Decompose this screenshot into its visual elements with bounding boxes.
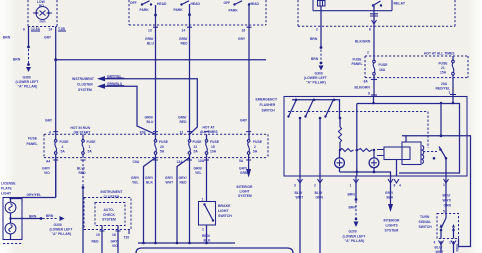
pin 16 + wire GRY bbox=[238, 25, 249, 134]
svg-text:GRN/: GRN/ bbox=[178, 116, 186, 120]
wire RED bbox=[92, 236, 103, 253]
flasher switch contact 1 bbox=[287, 101, 301, 177]
svg-text:BRN: BRN bbox=[348, 193, 356, 197]
gauge/sensor box (top left, dashed) bbox=[28, 0, 57, 27]
svg-text:5A: 5A bbox=[160, 150, 165, 154]
svg-text:"A" PILLAR): "A" PILLAR) bbox=[345, 239, 365, 243]
svg-text:PLATE: PLATE bbox=[1, 187, 12, 191]
svg-text:CLUSTER: CLUSTER bbox=[77, 83, 93, 87]
svg-text:BLU/: BLU/ bbox=[443, 194, 451, 198]
svg-text:C9A: C9A bbox=[133, 160, 140, 164]
turn signal contacts bbox=[440, 212, 456, 239]
svg-text:INTERIOR: INTERIOR bbox=[384, 219, 401, 223]
inner wire from pin 8 bbox=[356, 97, 460, 177]
svg-text:G200: G200 bbox=[349, 230, 357, 234]
wires GRY/YEL + GRY/BLK under fuse 20 bbox=[131, 158, 156, 243]
svg-text:16A: 16A bbox=[379, 68, 386, 72]
pin 14 + wire GRN/RED bbox=[179, 25, 190, 134]
svg-text:HOT IN RUN: HOT IN RUN bbox=[71, 126, 91, 130]
svg-text:BRN: BRN bbox=[310, 37, 318, 41]
svg-text:1: 1 bbox=[443, 183, 445, 187]
svg-text:1: 1 bbox=[449, 91, 451, 95]
pin 24 bbox=[49, 27, 67, 32]
svg-text:15A: 15A bbox=[440, 71, 447, 75]
wire GRY down to fuse 4 bbox=[45, 60, 56, 135]
svg-text:12.5A: 12.5A bbox=[31, 27, 41, 31]
wire BRN to G300 right bbox=[310, 11, 322, 65]
wires GRY/WHT + GRY/RED under fuse 22 bbox=[165, 158, 190, 243]
fuse S1 15A hot at all times bbox=[424, 52, 455, 78]
svg-text:YEL: YEL bbox=[195, 171, 202, 175]
svg-text:"A" PILLAR): "A" PILLAR) bbox=[52, 232, 72, 236]
svg-text:GRN: GRN bbox=[444, 204, 452, 208]
flasher pin 2 wire BLU/GRN bbox=[314, 176, 324, 253]
svg-text:4: 4 bbox=[434, 241, 436, 245]
svg-text:10A: 10A bbox=[198, 159, 205, 163]
svg-text:BLU/: BLU/ bbox=[435, 246, 443, 250]
svg-text:FUSE: FUSE bbox=[379, 63, 389, 67]
wire GRY/GRN to interior lights bbox=[237, 158, 254, 199]
relay outer dashed box bbox=[298, 0, 455, 26]
svg-text:5: 5 bbox=[443, 210, 445, 214]
svg-text:(LOWER LEFT: (LOWER LEFT bbox=[16, 80, 39, 84]
headlight switch contact 3 bbox=[224, 1, 260, 25]
svg-text:WHT: WHT bbox=[296, 196, 304, 200]
svg-text:GRY/YEL: GRY/YEL bbox=[27, 193, 42, 197]
headlight switch contact 2 bbox=[174, 1, 201, 25]
svg-text:2: 2 bbox=[316, 28, 318, 32]
svg-text:BLU: BLU bbox=[147, 120, 154, 124]
relay coil bbox=[318, 1, 326, 11]
indicator bulb 2 bbox=[369, 150, 379, 172]
svg-text:LIGHT: LIGHT bbox=[240, 190, 250, 194]
svg-text:GRY/: GRY/ bbox=[385, 191, 393, 195]
svg-text:22: 22 bbox=[194, 145, 198, 149]
svg-text:FUSE: FUSE bbox=[439, 62, 449, 66]
wire GRY from pin 24 bbox=[44, 27, 57, 62]
svg-text:BRN: BRN bbox=[13, 58, 21, 62]
svg-text:RED: RED bbox=[180, 120, 188, 124]
resistor row bbox=[339, 149, 375, 152]
wire BRN to G200 left bbox=[9, 214, 57, 221]
pin ticks at switch box and fuse band bbox=[53, 27, 251, 160]
fuse 4 bbox=[54, 134, 69, 157]
relay contact bbox=[372, 1, 382, 11]
svg-text:(LOWER LEFT: (LOWER LEFT bbox=[343, 235, 366, 239]
svg-text:GRY/: GRY/ bbox=[165, 176, 173, 180]
svg-text:CLUSTER: CLUSTER bbox=[104, 195, 120, 199]
svg-text:RED: RED bbox=[92, 240, 100, 244]
svg-text:GRY/: GRY/ bbox=[239, 167, 247, 171]
svg-text:LIGHT: LIGHT bbox=[1, 192, 11, 196]
svg-text:24: 24 bbox=[49, 28, 53, 32]
fuse 15 hot at all times bbox=[200, 126, 220, 158]
svg-text:21: 21 bbox=[441, 66, 445, 70]
svg-text:20A: 20A bbox=[441, 82, 448, 86]
svg-text:BLU/: BLU/ bbox=[295, 191, 303, 195]
svg-text:1: 1 bbox=[350, 184, 352, 188]
svg-text:5A: 5A bbox=[253, 150, 258, 154]
svg-text:GRN: GRN bbox=[240, 171, 248, 175]
license bulb 2 bbox=[5, 223, 16, 239]
ground G300 right bbox=[304, 66, 327, 85]
svg-text:2: 2 bbox=[314, 184, 316, 188]
svg-text:BRN: BRN bbox=[46, 214, 54, 218]
svg-text:13: 13 bbox=[148, 29, 152, 33]
ground G200 right bbox=[343, 222, 366, 244]
svg-text:16: 16 bbox=[112, 233, 116, 237]
svg-text:GRN: GRN bbox=[316, 196, 324, 200]
svg-text:2: 2 bbox=[254, 145, 256, 149]
svg-text:GRN/: GRN/ bbox=[145, 37, 153, 41]
fuse panel box right (dashed) bbox=[352, 56, 469, 78]
svg-text:INTERIOR: INTERIOR bbox=[237, 185, 254, 189]
svg-text:FUSE: FUSE bbox=[193, 140, 203, 144]
svg-text:FUSE: FUSE bbox=[28, 137, 38, 141]
svg-text:15: 15 bbox=[96, 233, 100, 237]
svg-text:1: 1 bbox=[449, 241, 451, 245]
wire GRY/VIO bbox=[111, 236, 119, 253]
svg-text:BRN: BRN bbox=[3, 36, 11, 40]
pin 6 bbox=[23, 27, 41, 32]
svg-text:10A: 10A bbox=[210, 150, 217, 154]
svg-text:G300: G300 bbox=[23, 76, 31, 80]
svg-text:GRY: GRY bbox=[44, 36, 52, 40]
wire BLU/RED under fuse 1 bbox=[77, 160, 86, 253]
bulb common wire bbox=[340, 171, 391, 176]
photo sensor symbol bbox=[33, 7, 52, 24]
fuse 1 bbox=[82, 134, 96, 157]
svg-text:FUSE: FUSE bbox=[253, 140, 263, 144]
svg-text:22: 22 bbox=[180, 131, 184, 135]
svg-text:16: 16 bbox=[242, 29, 246, 33]
svg-text:EMERGENCY: EMERGENCY bbox=[256, 98, 278, 102]
svg-text:OFF: OFF bbox=[130, 1, 137, 5]
svg-text:SWITCH: SWITCH bbox=[218, 214, 232, 218]
svg-text:YEL: YEL bbox=[132, 181, 139, 185]
svg-text:3: 3 bbox=[294, 184, 296, 188]
svg-text:6: 6 bbox=[369, 28, 371, 32]
svg-text:GRN: GRN bbox=[455, 244, 459, 252]
linkage (dashed) bbox=[288, 112, 428, 149]
svg-text:FLASHER: FLASHER bbox=[260, 103, 276, 107]
svg-text:FUSE: FUSE bbox=[210, 140, 220, 144]
bottom harness bus bbox=[138, 242, 235, 245]
resistor vertical bbox=[338, 118, 341, 150]
svg-text:GRY/: GRY/ bbox=[179, 176, 187, 180]
wire BLK/GRN to flasher bbox=[355, 78, 378, 97]
svg-text:VIO: VIO bbox=[44, 171, 50, 175]
relay pin stub bbox=[396, 160, 398, 177]
svg-text:FUSE: FUSE bbox=[353, 58, 363, 62]
ground G300 left bbox=[16, 67, 39, 89]
svg-text:BLU: BLU bbox=[147, 42, 154, 46]
license plate light label bbox=[1, 182, 16, 196]
svg-text:INSTRUMENT: INSTRUMENT bbox=[101, 190, 123, 194]
svg-text:BLK/GRN: BLK/GRN bbox=[355, 40, 371, 44]
svg-text:4: 4 bbox=[399, 184, 401, 188]
svg-text:BRAKE: BRAKE bbox=[218, 204, 231, 208]
flasher pin 3 wire BLU/WHT bbox=[294, 176, 303, 253]
svg-text:SWITCH: SWITCH bbox=[262, 109, 276, 113]
svg-text:WHT/: WHT/ bbox=[443, 199, 452, 203]
svg-text:5A: 5A bbox=[88, 150, 93, 154]
svg-text:WHT: WHT bbox=[166, 181, 174, 185]
headlight switch contact 1 bbox=[130, 1, 167, 25]
instrument cluster arrows (left) bbox=[72, 77, 94, 92]
svg-text:RED: RED bbox=[79, 171, 87, 175]
svg-text:8: 8 bbox=[368, 92, 370, 96]
svg-text:HEAD: HEAD bbox=[250, 2, 260, 6]
wire GRY/YEL from fuse 4 to license bbox=[9, 158, 55, 202]
brake light switch bbox=[199, 198, 233, 226]
indicator bulb 1 bbox=[335, 150, 345, 172]
svg-text:6: 6 bbox=[394, 184, 396, 188]
svg-text:GRY/: GRY/ bbox=[42, 167, 50, 171]
svg-text:GRY/: GRY/ bbox=[131, 176, 139, 180]
flasher pin 6 wire GRY/BLK to interior lights bbox=[384, 176, 401, 233]
arrow wire GRN/BLU bbox=[97, 82, 156, 134]
fuse 22 bbox=[180, 131, 203, 158]
svg-text:14: 14 bbox=[182, 29, 186, 33]
svg-text:HOT AT: HOT AT bbox=[203, 126, 215, 130]
svg-text:GRY/: GRY/ bbox=[145, 176, 153, 180]
svg-text:BLK/GRN: BLK/GRN bbox=[355, 86, 371, 90]
svg-text:GRN/: GRN/ bbox=[179, 37, 187, 41]
svg-text:13A: 13A bbox=[177, 160, 184, 164]
fuse 2 bbox=[247, 134, 262, 157]
svg-text:BLK: BLK bbox=[387, 196, 394, 200]
svg-text:mm: mm bbox=[40, 20, 46, 24]
pin 13 + wire GRN/BLU bbox=[145, 25, 156, 134]
flasher bus wire bbox=[292, 99, 340, 119]
svg-text:RED/: RED/ bbox=[202, 234, 210, 238]
ground G200 left bbox=[50, 216, 73, 236]
svg-text:2: 2 bbox=[202, 228, 204, 232]
svg-text:5A: 5A bbox=[239, 159, 244, 163]
relay drive wire bbox=[402, 102, 442, 142]
svg-text:8A: 8A bbox=[364, 80, 369, 84]
svg-text:LIGHTS: LIGHTS bbox=[386, 224, 399, 228]
svg-text:5A: 5A bbox=[194, 150, 199, 154]
svg-text:G300: G300 bbox=[315, 72, 323, 76]
svg-text:SIGNAL: SIGNAL bbox=[419, 220, 432, 224]
svg-text:"A" PILLAR): "A" PILLAR) bbox=[306, 81, 326, 85]
svg-text:CHECK: CHECK bbox=[103, 213, 115, 217]
svg-text:LIGHT: LIGHT bbox=[218, 209, 229, 213]
svg-text:20: 20 bbox=[160, 145, 164, 149]
svg-text:ALL TIMES: ALL TIMES bbox=[200, 130, 218, 134]
svg-text:RELAY: RELAY bbox=[394, 2, 406, 6]
flasher relay pin 4 bbox=[394, 179, 401, 188]
instrument pins bbox=[96, 226, 129, 240]
svg-text:PANEL: PANEL bbox=[352, 62, 363, 66]
svg-text:1: 1 bbox=[202, 198, 204, 202]
wire GRY/VIO under fuse 4 bbox=[42, 158, 56, 198]
svg-text:(LOWER LEFT: (LOWER LEFT bbox=[50, 228, 73, 232]
svg-text:INSTRUMENT: INSTRUMENT bbox=[72, 77, 94, 81]
svg-text:VIO: VIO bbox=[112, 244, 118, 248]
wire BLK/GRN relay output bbox=[355, 11, 378, 56]
svg-text:PARK: PARK bbox=[229, 9, 239, 13]
svg-text:SYSTEM: SYSTEM bbox=[238, 194, 252, 198]
svg-text:(LOWER LEFT: (LOWER LEFT bbox=[304, 76, 327, 80]
license bulb 1 bbox=[5, 198, 16, 224]
svg-text:SWITCH: SWITCH bbox=[419, 225, 433, 229]
svg-text:FUSE: FUSE bbox=[87, 140, 97, 144]
svg-text:OFF: OFF bbox=[224, 1, 231, 5]
svg-text:GRY: GRY bbox=[240, 119, 248, 123]
wire RED/YEL to flasher bbox=[436, 78, 457, 97]
right loop wire bbox=[441, 136, 471, 247]
svg-text:2: 2 bbox=[367, 51, 369, 55]
fuse 20 bbox=[140, 131, 169, 158]
headlight switch box (dashed) bbox=[129, 0, 266, 25]
flasher relay body bbox=[377, 142, 424, 165]
long horizontal wire y=59.7 bbox=[56, 59, 266, 61]
svg-text:LICENSE: LICENSE bbox=[1, 182, 16, 186]
svg-text:GRN/: GRN/ bbox=[145, 116, 153, 120]
turn signal pin wires bbox=[434, 241, 460, 253]
wire RED/BLK under brake switch bbox=[202, 225, 211, 243]
turn signal switch box bbox=[419, 210, 459, 239]
svg-text:T.2B: T.2B bbox=[58, 27, 65, 31]
svg-text:FUSE: FUSE bbox=[159, 140, 169, 144]
svg-text:GRN/: GRN/ bbox=[194, 167, 202, 171]
instrument cluster box (bottom) bbox=[84, 190, 131, 230]
HOT IN RUN label bbox=[71, 126, 91, 135]
bottom module box (rounded, cut) bbox=[136, 248, 293, 253]
svg-text:BLK: BLK bbox=[146, 181, 153, 185]
svg-text:RED: RED bbox=[180, 181, 188, 185]
svg-text:GRY: GRY bbox=[45, 119, 53, 123]
svg-text:G200: G200 bbox=[54, 223, 62, 227]
svg-text:HOT AT ALL TIMES: HOT AT ALL TIMES bbox=[424, 52, 455, 56]
svg-text:PANEL: PANEL bbox=[27, 142, 38, 146]
emergency flasher switch box bbox=[256, 97, 468, 177]
flasher switch contact 2 bbox=[304, 101, 321, 177]
svg-text:SYSTEM: SYSTEM bbox=[385, 229, 399, 233]
wire labels above fuse band bbox=[145, 116, 248, 125]
svg-text:TURN: TURN bbox=[420, 215, 430, 219]
svg-text:BLU/: BLU/ bbox=[77, 167, 85, 171]
license plate light box bbox=[3, 198, 22, 244]
svg-text:1: 1 bbox=[89, 145, 91, 149]
svg-text:PARK: PARK bbox=[140, 8, 150, 12]
svg-text:PARK: PARK bbox=[174, 8, 184, 12]
relay armature bbox=[423, 147, 447, 177]
auto-check system box bbox=[95, 203, 125, 226]
wire BRN to G300 left bbox=[3, 27, 30, 66]
svg-text:BRN: BRN bbox=[349, 206, 357, 210]
svg-text:X03: X03 bbox=[140, 131, 146, 135]
svg-text:SYSTEM: SYSTEM bbox=[78, 88, 92, 92]
svg-text:5A: 5A bbox=[61, 150, 66, 154]
svg-text:"A" PILLAR): "A" PILLAR) bbox=[18, 85, 38, 89]
svg-text:15: 15 bbox=[211, 145, 215, 149]
arrow wire GRY/YEL bbox=[97, 75, 197, 135]
svg-text:4: 4 bbox=[62, 145, 64, 149]
wire GRN/YEL to brake switch bbox=[194, 158, 207, 202]
svg-text:A4: A4 bbox=[46, 160, 50, 164]
svg-text:T20: T20 bbox=[124, 236, 130, 240]
relay box (top right) bbox=[313, 0, 406, 11]
svg-text:SYSTEM: SYSTEM bbox=[102, 218, 116, 222]
flasher switch contact 3 bbox=[324, 101, 341, 120]
svg-text:6: 6 bbox=[23, 28, 25, 32]
svg-text:HEAD: HEAD bbox=[157, 2, 167, 6]
svg-text:AUTO-: AUTO- bbox=[104, 208, 115, 212]
svg-text:OR START: OR START bbox=[74, 130, 91, 134]
flasher pin wire to turn signal switch bbox=[443, 176, 452, 212]
svg-text:BLU/: BLU/ bbox=[315, 191, 323, 195]
fuse panel band (dashed) bbox=[27, 134, 269, 157]
flasher pin 1 wire BRN to G200 bbox=[348, 176, 359, 220]
svg-text:GRY: GRY bbox=[238, 37, 246, 41]
svg-text:HEAD: HEAD bbox=[191, 2, 201, 6]
svg-text:BRN: BRN bbox=[311, 57, 319, 61]
svg-text:RED: RED bbox=[181, 42, 189, 46]
svg-text:FUSE: FUSE bbox=[60, 140, 70, 144]
fuse S2 16A bbox=[373, 56, 388, 78]
